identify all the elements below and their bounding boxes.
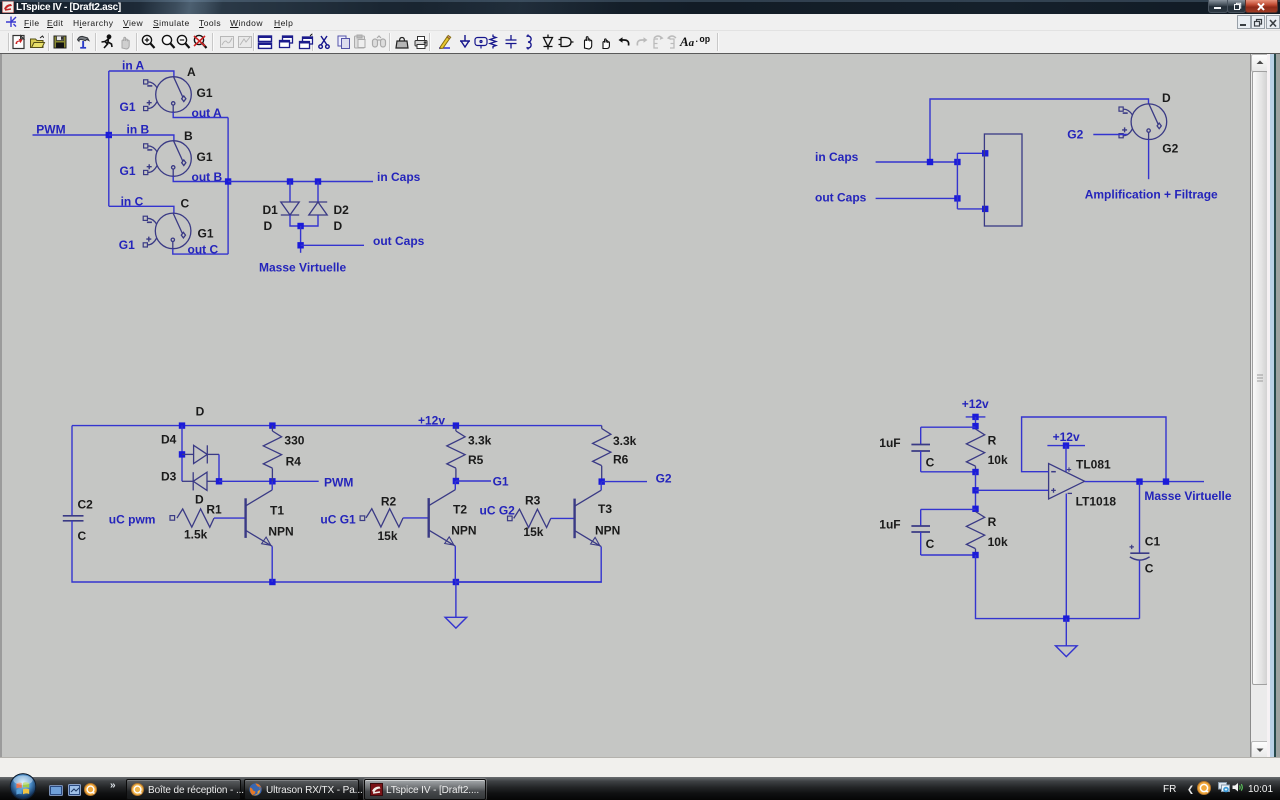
- svg-text:G2: G2: [1067, 128, 1083, 142]
- svg-text:Masse Virtuelle: Masse Virtuelle: [1144, 489, 1231, 503]
- svg-text:G1: G1: [119, 238, 135, 252]
- svg-text:R3: R3: [525, 494, 541, 508]
- wire in Caps: [228, 181, 373, 183]
- svg-text:1uF: 1uF: [879, 518, 900, 532]
- svg-text:D1: D1: [263, 203, 279, 217]
- resistor R top: [966, 429, 984, 466]
- wire D1 anode: [289, 182, 291, 203]
- svg-text:uC G2: uC G2: [480, 503, 516, 517]
- svg-text:A: A: [187, 65, 196, 79]
- junction R4 PWM: [269, 478, 275, 484]
- hierarchical block: [984, 134, 1022, 226]
- svg-text:NPN: NPN: [451, 524, 476, 538]
- svg-text:G2: G2: [656, 471, 672, 485]
- svg-text:R1: R1: [206, 503, 222, 517]
- wire +12v top rail: [72, 425, 602, 427]
- svg-text:C1: C1: [1145, 535, 1161, 549]
- wire R1 to T1 base: [214, 517, 246, 519]
- diode D2: [309, 202, 327, 215]
- svg-text:D3: D3: [161, 470, 177, 484]
- wire V- supply: [1065, 494, 1067, 619]
- svg-text:10k: 10k: [988, 453, 1008, 467]
- vertical scrollbar: [1250, 54, 1268, 758]
- wire out B: [173, 176, 228, 181]
- wire PWM to junction: [33, 134, 109, 136]
- transistor T1 body: [246, 490, 273, 546]
- wire left column to C2: [71, 426, 73, 516]
- wire to ground: [455, 582, 457, 617]
- junction R2 bottom: [972, 552, 978, 558]
- svg-text:out Caps: out Caps: [373, 234, 425, 248]
- svg-text:G1: G1: [198, 227, 214, 241]
- svg-text:Masse Virtuelle: Masse Virtuelle: [259, 260, 346, 274]
- port uC G1: [360, 516, 365, 521]
- capacitor C2b bottom wires: [920, 532, 922, 555]
- junction rail D4: [179, 422, 185, 428]
- svg-text:D: D: [195, 493, 204, 507]
- svg-text:+12v: +12v: [418, 414, 445, 428]
- wire D3 right lead: [207, 480, 219, 482]
- wire D3 left lead: [182, 480, 193, 482]
- wire G1 stub: [456, 480, 491, 482]
- tray: [1163, 784, 1176, 795]
- toolbar: [0, 31, 1280, 54]
- capacitor C1 polarized: [1130, 553, 1150, 560]
- wire R6 top lead: [601, 426, 603, 429]
- wire D output: [1148, 140, 1150, 180]
- status strip: [0, 757, 1280, 778]
- capacitor C2b top wires: [921, 508, 976, 510]
- wire D2 cathode: [317, 182, 319, 203]
- wire out C: [173, 249, 228, 254]
- svg-text:in Caps: in Caps: [377, 170, 421, 184]
- junction G2 node: [599, 478, 605, 484]
- wire to opamp plus: [976, 489, 1049, 491]
- transistor T2 body: [429, 490, 456, 546]
- svg-text:Amplification + Filtrage: Amplification + Filtrage: [1085, 187, 1218, 201]
- svg-text:3.3k: 3.3k: [468, 434, 492, 448]
- junction bottom rail T1: [269, 579, 275, 585]
- svg-text:LT1018: LT1018: [1076, 495, 1117, 509]
- +12v flag bar left: [966, 416, 986, 418]
- wire D4 leads: [182, 453, 194, 455]
- behavioral source D body: [1122, 104, 1167, 140]
- wire T2 emitter: [454, 546, 456, 582]
- svg-text:G2: G2: [1162, 141, 1178, 155]
- wire T3 collector: [600, 482, 602, 491]
- junction cap2 top: [972, 506, 978, 512]
- resistor R bottom: [966, 512, 984, 549]
- ground symbol right: [1056, 646, 1078, 657]
- resistor R4: [271, 426, 273, 431]
- svg-text:uC pwm: uC pwm: [109, 512, 156, 526]
- svg-text:D: D: [264, 219, 273, 233]
- svg-text:C: C: [926, 456, 935, 470]
- capacitor 1uF top: [911, 445, 930, 452]
- start orb: [7, 773, 39, 800]
- svg-text:TL081: TL081: [1076, 458, 1111, 472]
- svg-text:C: C: [1145, 562, 1154, 576]
- wire R3 to T3 base: [551, 517, 575, 519]
- wire G2 to + pin of D: [1093, 134, 1127, 136]
- wire C1 top: [1139, 482, 1141, 554]
- svg-text:PWM: PWM: [324, 476, 353, 490]
- behavioral source C body: [146, 213, 191, 249]
- svg-text:D: D: [1162, 91, 1171, 105]
- junction masse: [297, 223, 303, 229]
- diode D1: [281, 202, 299, 215]
- svg-text:G1: G1: [197, 86, 213, 100]
- window buttons: [1208, 0, 1228, 13]
- wire to source D input: [930, 99, 1149, 162]
- resistor R6: [593, 429, 611, 466]
- capacitor C2: [63, 516, 84, 521]
- wire T3 emitter: [456, 547, 601, 582]
- svg-text:D: D: [334, 219, 343, 233]
- wire in C: [109, 206, 174, 213]
- quick launch: show desktop: [49, 785, 63, 796]
- svg-text:in A: in A: [122, 59, 145, 73]
- junction G1 node: [453, 478, 459, 484]
- LTspice application window title bar: [0, 0, 1280, 14]
- wire out A: [173, 112, 228, 117]
- svg-text:in B: in B: [127, 123, 150, 137]
- wire T1 collector: [271, 481, 273, 490]
- task button 2: [244, 779, 359, 800]
- svg-text:C: C: [926, 537, 935, 551]
- wire diode bottoms join: [290, 215, 318, 226]
- svg-text:T3: T3: [598, 502, 612, 516]
- junction in Caps link: [954, 159, 960, 165]
- svg-text:in Caps: in Caps: [815, 150, 859, 164]
- wire in Caps right: [876, 161, 958, 163]
- svg-text:G1: G1: [197, 150, 213, 164]
- wire in B: [109, 135, 174, 141]
- svg-text:1.5k: 1.5k: [184, 528, 208, 542]
- wire flag to R: [975, 417, 977, 429]
- junction output C1: [1136, 478, 1142, 484]
- svg-text:330: 330: [284, 433, 304, 447]
- svg-text:T2: T2: [453, 503, 467, 517]
- pin square block top: [982, 150, 988, 156]
- svg-text:in C: in C: [121, 195, 144, 209]
- junction out Caps link: [954, 195, 960, 201]
- menu bar: [0, 14, 1280, 31]
- transistor T3 body: [575, 490, 602, 546]
- diode D3: [193, 472, 207, 490]
- junction R bottom: [972, 469, 978, 475]
- svg-text:+12v: +12v: [962, 397, 989, 411]
- +12v flag bar mid: [1047, 445, 1085, 447]
- svg-text:D4: D4: [161, 433, 177, 447]
- wire ground stub right: [1065, 619, 1067, 646]
- svg-text:out C: out C: [188, 242, 219, 256]
- wire C1 bottom: [1139, 561, 1141, 619]
- svg-text:out A: out A: [192, 106, 223, 120]
- svg-text:15k: 15k: [523, 525, 543, 539]
- junction V- rail: [1063, 615, 1069, 621]
- svg-text:R: R: [988, 434, 997, 448]
- svg-text:T1: T1: [270, 504, 284, 518]
- plus mark C1: [1130, 545, 1134, 549]
- svg-text:R2: R2: [381, 495, 397, 509]
- capacitor C top wires: [921, 426, 976, 428]
- junction D2 top: [315, 178, 321, 184]
- svg-text:out B: out B: [192, 170, 223, 184]
- flag square: [972, 414, 978, 420]
- task button 1: [126, 779, 241, 800]
- diode D4: [194, 445, 208, 463]
- MDI child buttons: [1237, 15, 1251, 29]
- quick launch: switch windows: [68, 784, 81, 796]
- junction cap1 top: [972, 423, 978, 429]
- svg-text:3.3k: 3.3k: [613, 434, 637, 448]
- wire opamp output: [1085, 481, 1204, 483]
- wire T1 emitter: [271, 546, 273, 582]
- right glass border: [1267, 54, 1280, 777]
- wire block pin bottom: [957, 208, 984, 210]
- wire G2 stub: [602, 481, 647, 483]
- svg-text:R: R: [988, 515, 997, 529]
- wire D column: [181, 426, 183, 482]
- junction out Caps: [297, 242, 303, 248]
- svg-text:uC G1: uC G1: [320, 512, 356, 526]
- capacitor 1uF bottom: [911, 526, 930, 532]
- port uC G2: [508, 516, 513, 521]
- wire left column to rail: [976, 555, 1140, 619]
- resistor R5: [455, 426, 457, 431]
- svg-text:D2: D2: [334, 203, 350, 217]
- ground symbol left: [445, 617, 467, 628]
- junction rail R5: [453, 422, 459, 428]
- wire T2 collector: [454, 481, 456, 490]
- behavioral source B body: [147, 141, 192, 177]
- resistor R3: [514, 509, 551, 527]
- behavioral source A body: [147, 77, 192, 113]
- junction D4 anode: [179, 451, 185, 457]
- junction out B / in Caps: [225, 178, 231, 184]
- taskbar: [0, 777, 1280, 800]
- capacitor C bottom wires: [920, 451, 922, 472]
- svg-text:C: C: [78, 529, 87, 543]
- resistor R1: [177, 509, 214, 527]
- wire R2 to T2 base: [403, 517, 429, 519]
- wire mid node: [975, 472, 977, 512]
- svg-text:C: C: [181, 197, 190, 211]
- op-amp U1 body: [1049, 464, 1085, 499]
- wire link vertical: [956, 153, 958, 209]
- svg-text:10k: 10k: [988, 535, 1008, 549]
- junction mid: [972, 487, 978, 493]
- svg-text:R4: R4: [286, 455, 302, 469]
- wire to out Caps: [300, 226, 302, 253]
- svg-text:G1: G1: [493, 474, 509, 488]
- wire in A: [109, 71, 174, 77]
- svg-text:D: D: [196, 405, 205, 419]
- junction rail R4: [269, 422, 275, 428]
- pins of source C: [143, 216, 147, 220]
- svg-text:15k: 15k: [378, 529, 398, 543]
- junction output feedback: [1163, 478, 1169, 484]
- task button 3 active: [364, 779, 486, 800]
- junction D3 PWM: [216, 478, 222, 484]
- svg-text:+12v: +12v: [1053, 430, 1080, 444]
- wire minus input feedback: [1022, 417, 1166, 482]
- svg-text:NPN: NPN: [595, 524, 620, 538]
- pins of source D: [1119, 107, 1123, 111]
- junction D1 top: [287, 178, 293, 184]
- svg-text:R6: R6: [613, 453, 629, 467]
- wire V+ supply: [1065, 446, 1067, 472]
- port uC pwm: [170, 516, 175, 521]
- svg-text:C2: C2: [78, 498, 94, 512]
- wire input trunk vertical: [108, 71, 110, 206]
- svg-text:G1: G1: [120, 100, 136, 114]
- svg-text:G1: G1: [120, 164, 136, 178]
- svg-text:NPN: NPN: [268, 525, 293, 539]
- quick launch: mail: [84, 783, 97, 796]
- flag square mid: [1063, 442, 1069, 448]
- wire C2 bottom to rail: [72, 521, 602, 582]
- junction bottom rail T2: [453, 579, 459, 585]
- svg-text:R5: R5: [468, 453, 484, 467]
- svg-text:B: B: [184, 129, 193, 143]
- svg-text:1uF: 1uF: [879, 436, 900, 450]
- wire D4 to D3: [218, 454, 220, 481]
- pin square block bottom: [982, 206, 988, 212]
- wire block pin top: [957, 152, 984, 154]
- wire output trunk vertical: [227, 118, 229, 255]
- pins of source A: [144, 80, 148, 84]
- wire out Caps stub: [301, 244, 364, 246]
- wire PWM line: [219, 480, 319, 482]
- wire out Caps right: [876, 197, 958, 199]
- junction PWM trunk: [106, 132, 112, 138]
- chevron: [110, 780, 116, 791]
- resistor R2: [366, 509, 403, 527]
- junction in Caps vertical: [927, 159, 933, 165]
- svg-text:out Caps: out Caps: [815, 190, 867, 204]
- pins of source B: [144, 144, 148, 148]
